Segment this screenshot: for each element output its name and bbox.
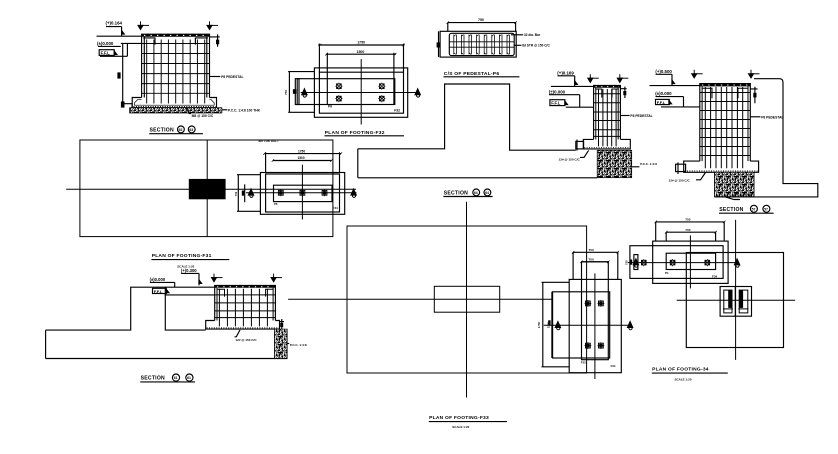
svg-text:12# @ 150 C/C: 12# @ 150 C/C bbox=[235, 338, 257, 342]
footing F32 outer rectangle bbox=[314, 68, 407, 117]
narrow column rectangle left bbox=[295, 79, 299, 105]
tick mark on drop line bbox=[117, 72, 120, 78]
detail pedestal rectangle bbox=[274, 185, 333, 201]
P.C.C. hatch block bbox=[274, 329, 287, 358]
svg-text:700: 700 bbox=[589, 258, 594, 262]
horizontal rebar grid bbox=[700, 93, 751, 156]
left dim tick bbox=[630, 260, 632, 265]
svg-text:750: 750 bbox=[589, 248, 594, 252]
svg-text:750: 750 bbox=[284, 90, 288, 95]
centre horizontal line bbox=[544, 324, 632, 326]
tick mark bottom of drop line bbox=[121, 101, 125, 107]
F.F.L box label bbox=[550, 100, 594, 108]
svg-text:P.C.C. 1:4:8 100 THK: P.C.C. 1:4:8 100 THK bbox=[228, 108, 261, 112]
anchor bolt B bbox=[669, 259, 676, 266]
svg-text:F34: F34 bbox=[611, 364, 616, 368]
F.F.L flag bbox=[565, 101, 568, 104]
right dimension bracket bbox=[280, 319, 285, 331]
F.F.L box label bbox=[153, 288, 215, 295]
stirrup leader label bbox=[514, 44, 550, 48]
centre vertical line bbox=[594, 273, 596, 379]
left dimension 750 bbox=[284, 72, 315, 113]
anchor bolt 3 bbox=[335, 95, 342, 102]
pedestal outline bbox=[215, 285, 276, 320]
middle horizontal bars bbox=[449, 42, 514, 47]
vertical centre line bbox=[466, 202, 468, 398]
rebar top hook right bbox=[195, 38, 208, 45]
svg-text:F.F.L: F.F.L bbox=[101, 51, 111, 56]
footing toe bracket bbox=[676, 162, 686, 174]
svg-text:750: 750 bbox=[685, 218, 690, 222]
footing base dotted mesh line bbox=[134, 106, 216, 108]
svg-text:F34: F34 bbox=[712, 275, 718, 279]
pedestal outline bbox=[142, 34, 210, 97]
grid horizontal centre line bbox=[677, 299, 795, 301]
svg-text:P6: P6 bbox=[274, 202, 278, 206]
detail tall pedestal rectangle bbox=[582, 262, 609, 360]
column box left dark bar bbox=[728, 290, 732, 308]
section arrow right bbox=[628, 322, 633, 330]
plinth left edge and bottom line bbox=[358, 149, 597, 178]
anchor bolt 2 bbox=[378, 83, 385, 90]
anchor bolt 1 bbox=[585, 300, 592, 307]
vertical rebar grid bbox=[705, 87, 742, 168]
footing base dotted mesh line bbox=[685, 170, 758, 172]
P.C.C. hatch block bbox=[597, 150, 632, 177]
mesh leader label 12# bbox=[669, 173, 706, 183]
rebar top hook left bbox=[595, 89, 602, 98]
bar hooks top bbox=[454, 35, 509, 37]
svg-text:SCALE 1:20: SCALE 1:20 bbox=[452, 425, 469, 429]
rebar top hook right bbox=[738, 88, 749, 98]
svg-text:1500: 1500 bbox=[298, 156, 305, 160]
pedestal crossing rectangle bbox=[297, 79, 395, 105]
column centre arrow right bbox=[617, 74, 628, 82]
svg-text:PLAN OF FOOTING-F32: PLAN OF FOOTING-F32 bbox=[325, 130, 385, 136]
svg-text:(+)0.300: (+)0.300 bbox=[181, 268, 197, 273]
column box left inner slot bbox=[724, 290, 732, 313]
level label (+)0.164 bbox=[106, 20, 123, 36]
F.F.L flag bbox=[669, 100, 672, 103]
pedestal top band bbox=[142, 34, 210, 37]
anchor bolt 1 bbox=[335, 83, 342, 90]
level label (±)0.000 bbox=[655, 91, 683, 107]
svg-text:61: 61 bbox=[187, 376, 191, 380]
rebar top hook right bbox=[612, 89, 619, 98]
title SECTION 64-64 bbox=[443, 189, 492, 197]
svg-text:PLAN OF FOOTING-F33: PLAN OF FOOTING-F33 bbox=[429, 415, 489, 421]
title C/S OF PEDESTAL-P6 bbox=[444, 71, 520, 77]
column centre arrow left bbox=[212, 274, 223, 282]
level label (±)0.000 bbox=[150, 277, 175, 287]
svg-text:(±)0.000: (±)0.000 bbox=[97, 41, 114, 46]
P8 PEDESTAL label bbox=[620, 114, 652, 118]
title PLAN OF FOOTING-F31 bbox=[151, 253, 229, 269]
pedestal cross-section outer rectangle bbox=[440, 31, 516, 57]
level flag 0.300 bbox=[199, 280, 202, 283]
footing base inner chamfer line bbox=[134, 100, 214, 106]
plinth stepped outline bbox=[46, 287, 206, 330]
svg-text:M8 @ 150 C/C: M8 @ 150 C/C bbox=[192, 114, 214, 118]
svg-text:F33: F33 bbox=[581, 361, 586, 365]
level label (+)0.169 bbox=[557, 70, 574, 86]
centre horizontal line bbox=[628, 262, 736, 264]
svg-text:(+)0.500: (+)0.500 bbox=[655, 69, 672, 74]
column centre arrow right bbox=[207, 21, 218, 29]
footing base outline bbox=[684, 161, 759, 172]
grid horizontal centre line bbox=[66, 188, 356, 190]
P.C.C. label bbox=[632, 162, 658, 167]
raft grid rectangle bbox=[80, 140, 333, 237]
level label (±)0.000 bbox=[97, 41, 142, 56]
pedestal inner side lines bbox=[144, 37, 207, 98]
F.F.L box label bbox=[99, 50, 127, 57]
svg-text:1750: 1750 bbox=[537, 321, 541, 328]
svg-text:PLAN OF FOOTING-F31: PLAN OF FOOTING-F31 bbox=[152, 253, 212, 259]
column centre arrow left bbox=[692, 70, 703, 78]
pedestal top band bbox=[700, 84, 751, 87]
svg-text:63: 63 bbox=[189, 128, 193, 132]
section arrow left bbox=[302, 89, 307, 97]
svg-text:700: 700 bbox=[685, 228, 690, 232]
section arrow right bbox=[351, 189, 356, 197]
rebar top hook left bbox=[217, 289, 225, 296]
column box right inner slot bbox=[739, 290, 748, 313]
vertical rebar grid bbox=[599, 89, 617, 146]
P.C.C. label leader bbox=[725, 192, 751, 199]
svg-text:F31: F31 bbox=[333, 206, 339, 210]
anchor bolt right bbox=[321, 189, 328, 196]
svg-text:(±)0.000: (±)0.000 bbox=[549, 89, 566, 94]
svg-text:1500: 1500 bbox=[357, 50, 365, 54]
level flag 0.169 bbox=[575, 81, 578, 84]
F.F.L flag bbox=[166, 289, 169, 292]
detail crossing rectangle (landscape) bbox=[553, 292, 610, 358]
svg-text:SECTION: SECTION bbox=[719, 207, 743, 213]
svg-text:P1: P1 bbox=[665, 271, 669, 275]
anchor bolt C bbox=[704, 259, 711, 266]
title PLAN OF FOOTING-F32 bbox=[325, 130, 405, 136]
svg-text:(+)0.164: (+)0.164 bbox=[106, 20, 123, 25]
column section box left bbox=[720, 287, 735, 317]
svg-text:63: 63 bbox=[179, 128, 183, 132]
svg-text:1750: 1750 bbox=[357, 41, 365, 45]
detail outer rectangle bbox=[260, 173, 344, 215]
footing toe bracket bbox=[576, 140, 584, 151]
title PLAN OF FOOTING-F33 bbox=[429, 415, 507, 429]
vertical rebar grid bbox=[147, 40, 205, 104]
rebar top hook left bbox=[143, 38, 155, 45]
svg-text:SECTION: SECTION bbox=[150, 128, 174, 134]
svg-text:64: 64 bbox=[485, 191, 489, 195]
centre bolt line bbox=[246, 192, 357, 194]
centre vertical line bbox=[301, 165, 303, 220]
anchor bolt centre bbox=[299, 189, 306, 196]
F.F.L flag bbox=[114, 51, 117, 54]
title PLAN OF FOOTING-34 bbox=[652, 366, 728, 381]
column centre arrow right bbox=[271, 274, 282, 282]
rebar top hook right bbox=[266, 289, 274, 296]
vertical rebar grid bbox=[219, 289, 267, 327]
pedestal rectangle bbox=[434, 286, 499, 312]
adjacent plinth outline right bbox=[754, 79, 818, 197]
detail pedestal rectangle bbox=[666, 253, 715, 269]
centre vertical line short bbox=[689, 235, 691, 288]
top dimension 1750 bbox=[318, 41, 405, 73]
anchor bolt 4 bbox=[598, 342, 605, 349]
pedestal inner side lines bbox=[702, 86, 748, 161]
tie (stirrup) rounded rectangle bbox=[449, 33, 514, 55]
svg-text:(±)0.000: (±)0.000 bbox=[655, 91, 672, 96]
top-right dimension bracket bbox=[620, 87, 626, 98]
svg-text:400 THK RAFT: 400 THK RAFT bbox=[258, 139, 279, 143]
top dimension 750 bbox=[572, 248, 619, 279]
left marker square bbox=[437, 42, 440, 47]
level label (±)0.000 bbox=[549, 89, 580, 107]
section arrow right bbox=[415, 89, 420, 97]
anchor bolt 4 bbox=[378, 95, 385, 102]
svg-text:C/S OF PEDESTAL-P6: C/S OF PEDESTAL-P6 bbox=[444, 71, 500, 77]
F.F.L box label bbox=[656, 99, 700, 107]
svg-text:1750: 1750 bbox=[298, 149, 305, 153]
pedestal top band bbox=[594, 85, 621, 87]
P.C.C. hatch block bbox=[714, 172, 754, 196]
svg-text:F.F.L: F.F.L bbox=[657, 100, 666, 105]
pedestal top band bbox=[215, 286, 276, 288]
top dimension 1750 bbox=[263, 149, 342, 172]
pedestal inner side lines bbox=[596, 88, 618, 140]
rebar top hook left bbox=[702, 88, 713, 98]
plinth T outline bbox=[358, 84, 576, 150]
second dimension 1500 bbox=[325, 50, 396, 105]
footing base dotted mesh line bbox=[584, 147, 629, 149]
svg-text:F32: F32 bbox=[394, 108, 400, 112]
svg-text:PLAN OF FOOTING-34: PLAN OF FOOTING-34 bbox=[652, 366, 709, 372]
svg-text:12# @ 150 C/C: 12# @ 150 C/C bbox=[669, 179, 691, 183]
pedestal outline bbox=[700, 84, 751, 162]
small square marker bbox=[293, 89, 296, 94]
column box right bottom tick bbox=[738, 308, 748, 310]
svg-text:P8 PEDESTAL: P8 PEDESTAL bbox=[761, 115, 783, 119]
svg-text:(+)0.169: (+)0.169 bbox=[557, 70, 574, 75]
anchor bolt 3 bbox=[585, 342, 592, 349]
footing base outline bbox=[132, 98, 216, 108]
ground level line bbox=[551, 85, 594, 87]
svg-text:61: 61 bbox=[174, 376, 178, 380]
horizontal rebar grid bbox=[215, 295, 276, 318]
top-right dimension bracket bbox=[750, 87, 757, 104]
column centre arrow right bbox=[749, 70, 760, 78]
left dimension lines bbox=[237, 175, 260, 212]
svg-text:P8 PEDESTAL: P8 PEDESTAL bbox=[630, 114, 652, 118]
pedestal outline bbox=[594, 85, 621, 139]
second dimension 700 bbox=[580, 258, 609, 264]
column grid square bbox=[686, 253, 783, 348]
ground level line bbox=[650, 85, 700, 87]
title SECTION 61-61 bbox=[140, 374, 195, 382]
svg-text:(±)0.000: (±)0.000 bbox=[150, 277, 166, 282]
left plinth drop line bbox=[123, 43, 132, 107]
filled pedestal block bbox=[189, 179, 226, 199]
top dimension 750 bbox=[655, 218, 726, 241]
left marker square bbox=[548, 320, 550, 325]
svg-text:64: 64 bbox=[474, 191, 478, 195]
level flag 0.500 bbox=[672, 80, 675, 83]
detail outer rectangle (portrait) bbox=[569, 279, 621, 372]
svg-text:8d STR @ 150 C/C: 8d STR @ 150 C/C bbox=[522, 44, 550, 48]
main bars leader label bbox=[511, 33, 541, 37]
svg-text:P.C.C. 1:4:8: P.C.C. 1:4:8 bbox=[734, 192, 751, 196]
mesh leader label 12# bbox=[559, 150, 589, 161]
level label (+)0.300 bbox=[181, 268, 199, 285]
centre line horizontal bbox=[301, 92, 419, 94]
small column rectangle left bbox=[634, 255, 638, 270]
P.C.C. label bbox=[287, 343, 307, 347]
mesh leader label 12# bbox=[235, 330, 258, 342]
column centre arrow left bbox=[588, 74, 599, 82]
horizontal rebar grid bbox=[142, 44, 210, 94]
plinth left edge and long bottom line bbox=[46, 330, 288, 358]
detail outer rectangle (landscape) bbox=[653, 241, 728, 283]
plinth bottom line under hatch bbox=[714, 196, 754, 198]
bar hooks bottom bbox=[454, 53, 509, 55]
title SECTION 63-63 bbox=[149, 126, 203, 134]
vertical bars with hooks bbox=[454, 35, 510, 55]
svg-text:P8 PEDESTAL: P8 PEDESTAL bbox=[221, 75, 243, 79]
svg-text:12# @ 150 C/C: 12# @ 150 C/C bbox=[559, 157, 581, 161]
svg-text:57: 57 bbox=[764, 207, 768, 211]
left extent line bbox=[438, 31, 440, 57]
column box left bottom tick bbox=[723, 308, 733, 310]
section arrow left bbox=[633, 259, 638, 267]
svg-text:P6: P6 bbox=[328, 105, 332, 109]
footing base outline bbox=[206, 321, 280, 330]
svg-text:750: 750 bbox=[478, 18, 484, 22]
grid vertical centre line bbox=[735, 220, 737, 360]
column box right dark bar bbox=[740, 290, 744, 308]
detail inner rectangle bbox=[266, 174, 340, 212]
level flag 0.164 bbox=[122, 31, 125, 34]
P.C.C. hatch strip bbox=[130, 108, 222, 113]
detail crossing rectangle bbox=[630, 246, 723, 279]
svg-text:P.C.C. 1:4:8: P.C.C. 1:4:8 bbox=[290, 343, 307, 347]
svg-text:F.F.L: F.F.L bbox=[551, 101, 561, 106]
horizontal rebar grid bbox=[594, 94, 621, 137]
footing F32 inner rectangle bbox=[319, 72, 403, 113]
ground level line to pedestal bbox=[165, 286, 214, 288]
svg-text:P.C.C. 1:4:8: P.C.C. 1:4:8 bbox=[640, 162, 657, 166]
top-right dimension bracket bbox=[210, 34, 220, 46]
svg-text:SECTION: SECTION bbox=[141, 376, 165, 382]
anchor bolt left bbox=[277, 189, 284, 196]
pedestal inner side lines bbox=[217, 288, 273, 321]
svg-text:SECTION: SECTION bbox=[444, 191, 468, 197]
centre line vertical bbox=[360, 59, 362, 124]
section arrow right bbox=[735, 259, 740, 267]
footing base outline bbox=[583, 139, 630, 149]
left marker square bbox=[242, 191, 244, 196]
svg-text:750: 750 bbox=[234, 191, 238, 196]
level label (+)0.500 bbox=[655, 69, 672, 86]
section arrow left bbox=[555, 322, 560, 330]
column centre arrow left bbox=[138, 21, 149, 29]
svg-text:SCALE 1:20: SCALE 1:20 bbox=[675, 377, 692, 381]
anchor bolt A bbox=[640, 259, 647, 266]
column section box right bbox=[735, 287, 751, 317]
P8 PEDESTAL label bbox=[750, 115, 783, 119]
title SECTION 57-57 bbox=[719, 205, 774, 213]
raft rectangle F33 bbox=[347, 226, 587, 373]
ground level line bbox=[97, 35, 142, 37]
grid vertical line bbox=[206, 140, 208, 237]
left dimension lines bbox=[542, 282, 570, 367]
horizontal centre line bbox=[288, 298, 552, 300]
anchor bolt 2 bbox=[598, 300, 605, 307]
second dimension 700 bbox=[665, 228, 717, 241]
bottom mesh leader label bbox=[187, 108, 214, 118]
footing base dotted mesh line bbox=[207, 327, 279, 329]
second dimension 1500 bbox=[272, 156, 333, 162]
svg-text:57: 57 bbox=[752, 207, 756, 211]
section arrow left bbox=[248, 189, 253, 197]
svg-text:F.F.L: F.F.L bbox=[154, 289, 163, 294]
P8 PEDESTAL label bbox=[210, 75, 244, 79]
top dimension 750 bbox=[447, 18, 517, 31]
P.C.C. label bbox=[222, 108, 261, 112]
svg-text:32 dia. Bar: 32 dia. Bar bbox=[524, 33, 541, 37]
